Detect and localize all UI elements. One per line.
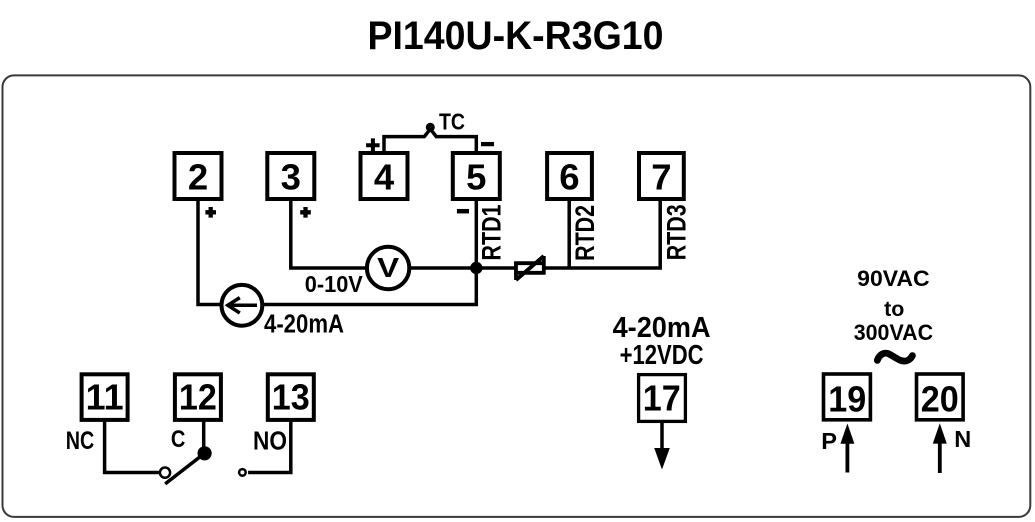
svg-text:12: 12 bbox=[179, 376, 217, 417]
svg-text:90VAC: 90VAC bbox=[857, 266, 930, 291]
svg-text:RTD2: RTD2 bbox=[570, 205, 600, 261]
svg-text:N: N bbox=[954, 426, 971, 452]
svg-text:2: 2 bbox=[188, 157, 208, 198]
svg-text:0-10V: 0-10V bbox=[305, 271, 364, 297]
svg-text:19: 19 bbox=[828, 378, 866, 419]
svg-text:6: 6 bbox=[559, 157, 579, 198]
svg-text:300VAC: 300VAC bbox=[854, 320, 934, 345]
svg-text:P: P bbox=[821, 428, 837, 454]
svg-text:V: V bbox=[377, 252, 399, 283]
svg-text:5: 5 bbox=[466, 157, 486, 198]
svg-text:17: 17 bbox=[643, 378, 681, 419]
svg-text:+12VDC: +12VDC bbox=[620, 339, 704, 370]
svg-text:7: 7 bbox=[651, 157, 671, 198]
svg-text:13: 13 bbox=[272, 376, 310, 417]
svg-text:C: C bbox=[171, 426, 186, 453]
svg-text:3: 3 bbox=[281, 157, 301, 198]
svg-text:to: to bbox=[884, 297, 904, 321]
svg-text:20: 20 bbox=[921, 378, 959, 419]
svg-text:RTD1: RTD1 bbox=[477, 205, 507, 261]
svg-text:4: 4 bbox=[374, 157, 395, 198]
svg-text:NC: NC bbox=[66, 427, 95, 455]
svg-text:RTD3: RTD3 bbox=[661, 204, 691, 260]
svg-text:PI140U-K-R3G10: PI140U-K-R3G10 bbox=[368, 14, 664, 58]
svg-text:4-20mA: 4-20mA bbox=[264, 311, 344, 339]
svg-text:NO: NO bbox=[253, 428, 287, 456]
svg-text:11: 11 bbox=[86, 376, 124, 417]
svg-text:TC: TC bbox=[439, 109, 465, 135]
